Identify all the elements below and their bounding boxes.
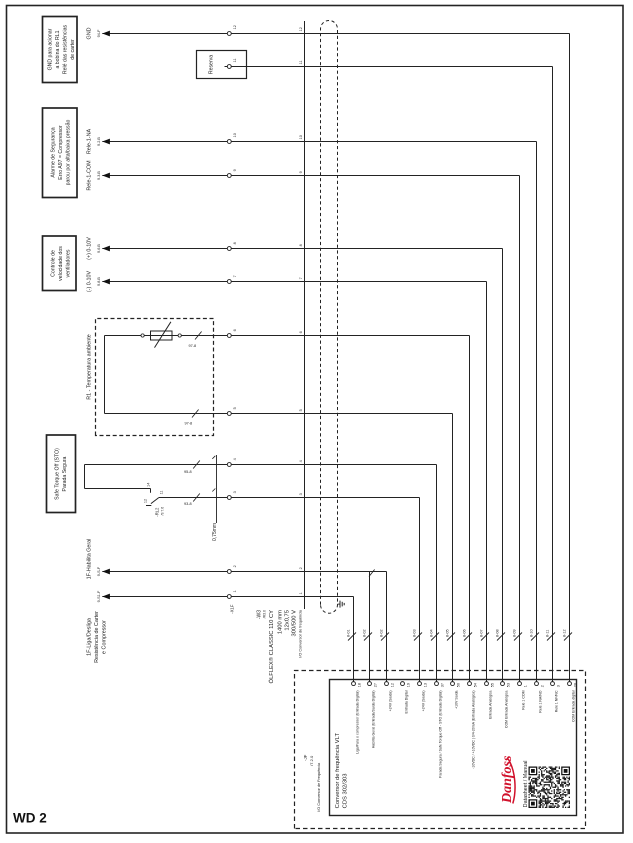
svg-text:Erro A97 = Compressor: Erro A97 = Compressor [58, 125, 64, 180]
svg-text:2: 2 [299, 567, 303, 569]
svg-text:R1 - Temperatura ambiente: R1 - Temperatura ambiente [87, 334, 93, 400]
wire row to pin 50 [452, 414, 454, 682]
wire w9 riser [102, 175, 519, 177]
wire w5 riser [105, 413, 453, 415]
converter pin 37 circle [435, 682, 439, 686]
wire w8 riser [102, 248, 502, 250]
svg-text:9.6.B: 9.6.B [97, 244, 101, 253]
svg-text:12: 12 [299, 27, 303, 31]
svg-text:53: 53 [506, 683, 510, 687]
arrow head w7 [102, 279, 110, 285]
terminal X1F:6 [227, 334, 231, 338]
svg-text:12: 12 [143, 499, 147, 503]
converter pin 12 circle [385, 682, 389, 686]
terminal X1F:10 [227, 140, 231, 144]
cable marker slash row 50 [447, 633, 455, 641]
svg-text:+10V Saída: +10V Saída [455, 690, 459, 708]
svg-text:5: 5 [233, 407, 237, 409]
svg-text:(-) 0-10V: (-) 0-10V [87, 270, 93, 292]
terminal X1F:1 [227, 595, 231, 599]
svg-text:0,75mm: 0,75mm [212, 523, 218, 541]
svg-text:Alarme de Segurança: Alarme de Segurança [51, 127, 57, 177]
wire w2 riser [102, 571, 386, 573]
svg-text:8-11: 8-11 [545, 630, 549, 637]
svg-text:8-12: 8-12 [562, 629, 566, 637]
svg-text:37: 37 [440, 683, 444, 687]
converter VLT solid box [330, 680, 577, 816]
svg-text:6: 6 [299, 331, 303, 333]
converter pin 55 circle [485, 682, 489, 686]
svg-text:Safe Torque Off (STO): Safe Torque Off (STO) [55, 448, 61, 500]
cable marker slash row 37 [431, 633, 439, 641]
cable marker slash row 2 [531, 633, 539, 641]
conductor size line 0,75mm [216, 455, 218, 523]
svg-text:1F-Habilita Geral: 1F-Habilita Geral [87, 539, 93, 580]
svg-text:Relé 1 COM: Relé 1 COM [522, 690, 526, 709]
svg-text:93-8: 93-8 [184, 502, 192, 506]
converter pin 2 circle [535, 682, 539, 686]
wire STO branch horizontal [84, 465, 86, 489]
cable marker slash row 12 [381, 633, 389, 641]
svg-text:19: 19 [406, 683, 410, 687]
wire row to pin 37 [436, 465, 438, 682]
svg-text:Rele-1-NA: Rele-1-NA [87, 129, 93, 155]
svg-text:ÖLFLEX® CLASSIC 110 CY: ÖLFLEX® CLASSIC 110 CY [268, 610, 275, 684]
wire stub in Reserva box [225, 66, 228, 68]
cable -W3 label block [256, 609, 302, 683]
svg-text:Resistência de Carter: Resistência de Carter [94, 611, 100, 663]
svg-text:GND para acionar: GND para acionar [48, 28, 54, 70]
svg-text:9.3.B: 9.3.B [97, 171, 101, 180]
R1 dashed enclosure [96, 319, 214, 436]
svg-text:54: 54 [473, 683, 477, 687]
cable marker slash row 18 [348, 633, 356, 641]
terminal X1F:11 [227, 65, 231, 69]
svg-text:3: 3 [233, 491, 237, 493]
svg-text:11: 11 [160, 490, 164, 494]
svg-text:9.8.B: 9.8.B [97, 277, 101, 286]
cable marker slash row 53 [497, 633, 505, 641]
svg-text:8-06: 8-06 [462, 629, 466, 637]
svg-text:8-10: 8-10 [529, 629, 533, 637]
svg-text:12: 12 [390, 683, 394, 687]
wire row to pin 1 [519, 176, 521, 682]
wire w12 riser [102, 33, 569, 35]
converter pin 3 circle [551, 682, 555, 686]
device box: Alarme de Seguranca Erro A97 [43, 108, 78, 198]
cable marker slash on w6 [195, 332, 202, 340]
svg-text:4: 4 [299, 460, 303, 462]
svg-text:8-07: 8-07 [479, 629, 483, 637]
converter pin 1 circle [518, 682, 522, 686]
device box: Safe Torque Off (STO) Parada Segura [47, 435, 76, 513]
svg-text:8-08: 8-08 [495, 629, 499, 637]
svg-text:Reserva: Reserva [209, 55, 215, 74]
arrow head w2 [102, 569, 110, 575]
wire row to pin 27 [369, 572, 371, 682]
svg-text:8: 8 [233, 242, 237, 244]
svg-text:8: 8 [299, 244, 303, 246]
svg-text:Habilita Geral (Entrada/Saída: Habilita Geral (Entrada/Saída Digital) [372, 691, 376, 749]
svg-text:9.2.B: 9.2.B [97, 137, 101, 146]
svg-text:Conversor de frequência VLT: Conversor de frequência VLT [335, 733, 341, 809]
converter title [335, 733, 349, 809]
wire row to pin 53 [502, 249, 504, 682]
svg-text:Parada Segura: Parada Segura [62, 456, 68, 491]
cable marker slash row 27 [364, 633, 372, 641]
svg-text:11: 11 [233, 58, 237, 62]
svg-text:COM Entrada digital: COM Entrada digital [572, 690, 576, 722]
svg-text:2: 2 [233, 565, 237, 567]
svg-text:Rele-1-COM: Rele-1-COM [87, 160, 93, 191]
svg-text:1: 1 [523, 685, 527, 687]
svg-text:8-05: 8-05 [445, 629, 449, 637]
cable marker slash row 1 [514, 633, 522, 641]
svg-text:6: 6 [233, 329, 237, 331]
wire row to pin 55 [486, 282, 488, 682]
arrow head w8 [102, 246, 110, 252]
wire row to pin 18 [353, 597, 355, 682]
svg-text:-RL2: -RL2 [155, 507, 160, 517]
terminal X1F:9 [227, 174, 231, 178]
svg-text:8-02: 8-02 [379, 629, 383, 637]
svg-text:1: 1 [299, 592, 303, 594]
svg-text:Controle de: Controle de [51, 250, 57, 277]
wire row to pin 12 [386, 572, 388, 682]
Danfoss logo [500, 755, 515, 804]
svg-text:9: 9 [233, 169, 237, 171]
svg-text:12: 12 [233, 25, 237, 29]
ground symbol [340, 601, 344, 608]
wire STO branch vertical to contact 14 [85, 488, 151, 490]
wire w6 riser [105, 335, 470, 337]
thermistor R1 body [141, 322, 181, 348]
svg-text:9-S1-F: 9-S1-F [97, 590, 101, 602]
relay contact RL2 blade [151, 498, 159, 504]
cable marker slash row 54 [464, 633, 472, 641]
svg-text:11: 11 [299, 60, 303, 64]
svg-text:8-01: 8-01 [346, 629, 350, 637]
svg-text:/R3.0: /R3.0 [263, 610, 267, 618]
contact terminal 12 stub [146, 505, 151, 507]
device box: GND para acionar a bobina do RL1 [43, 17, 78, 83]
wire w11 riser [225, 66, 553, 68]
cable marker slash row 13 [414, 633, 422, 641]
arrow head w12 [102, 31, 110, 37]
svg-text:ventiladores: ventiladores [66, 249, 72, 277]
svg-text:de carter: de carter [70, 39, 76, 60]
svg-text:-X1F: -X1F [229, 604, 234, 614]
R1 loop link wire [104, 336, 106, 414]
wire w7 riser [102, 281, 486, 283]
svg-text:a bobina do RL1: a bobina do RL1 [55, 30, 61, 68]
wire row to pin 20 [569, 34, 571, 682]
cable -W3 boundary line [304, 21, 306, 609]
svg-text:GND: GND [87, 27, 93, 39]
svg-text:9-S-F: 9-S-F [97, 566, 101, 576]
shield ground stub [338, 603, 341, 605]
wire row to pin 54 [469, 336, 471, 682]
svg-text:Liga/Para o compressor (Entrad: Liga/Para o compressor (Entrada Digital) [356, 691, 360, 754]
terminal X1F:2 [227, 570, 231, 574]
terminal X1F:12 [227, 32, 231, 36]
svg-text:Entrada Digital: Entrada Digital [405, 690, 409, 713]
svg-text:18: 18 [357, 683, 361, 687]
converter pin 13 circle [418, 682, 422, 686]
cable screen dashed oval [321, 21, 338, 614]
svg-text:-JF: -JF [303, 754, 308, 761]
frequency converter dashed box [295, 671, 586, 829]
svg-text:I/O Conversor de frequência: I/O Conversor de frequência [299, 609, 303, 658]
svg-text:3: 3 [299, 493, 303, 495]
svg-text:Relé 1 NA/NO: Relé 1 NA/NO [539, 690, 543, 712]
arrow head w9 [102, 173, 110, 179]
svg-text:4: 4 [233, 458, 237, 460]
svg-text:8-02: 8-02 [362, 629, 366, 637]
QR code Datasheet/Manual [529, 767, 571, 809]
svg-text:10: 10 [299, 135, 303, 139]
converter pin 18 circle [352, 682, 356, 686]
svg-text:95-8: 95-8 [184, 470, 192, 474]
wire row to pin 13 [419, 498, 421, 682]
svg-text:I/O Conversor de Frequência: I/O Conversor de Frequência [317, 762, 321, 812]
wire row to pin 3 [552, 67, 554, 682]
svg-text:Entrada Analógica: Entrada Analógica [489, 690, 493, 718]
device box: Controle de velocidade dos ventiladores [43, 236, 77, 291]
svg-text:-10VDC / +10VDC | 0/4-20mA (En: -10VDC / +10VDC | 0/4-20mA (Entrada Anal… [472, 691, 476, 769]
svg-text:Datasheet / Manual: Datasheet / Manual [523, 761, 529, 808]
svg-text:9: 9 [299, 171, 303, 173]
converter pin 53 circle [501, 682, 505, 686]
svg-text:8-04: 8-04 [429, 629, 433, 637]
svg-text:10: 10 [233, 133, 237, 137]
wire w10 riser [102, 141, 536, 143]
tick on 0,75mm line at w3 [212, 489, 215, 492]
label 1F-Liga/Desliga Resistencia de Carter e Compressor [87, 611, 108, 663]
svg-text:8-03: 8-03 [412, 629, 416, 637]
cable marker slash row 3 [547, 633, 555, 641]
cable marker slash on w4 [193, 461, 200, 469]
cable marker slash on w5 [192, 410, 199, 418]
svg-text:(+) 0-10V: (+) 0-10V [87, 237, 93, 260]
wire w1 riser [102, 596, 353, 598]
cable marker slash row 55 [481, 633, 489, 641]
svg-text:Relé das resistências: Relé das resistências [63, 24, 69, 74]
svg-text:velocidade dos: velocidade dos [58, 246, 64, 281]
svg-text:Danfoss: Danfoss [500, 755, 515, 804]
converter pin 54 circle [468, 682, 472, 686]
svg-text:CDS 302/303: CDS 302/303 [342, 773, 348, 808]
converter pin 20 circle [568, 682, 572, 686]
wire w4 riser [85, 464, 437, 466]
svg-text:parou por alta/baixa pressão: parou por alta/baixa pressão [66, 120, 72, 186]
terminal X1F:3 [227, 496, 231, 500]
svg-text:5: 5 [299, 409, 303, 411]
converter designator -JF [303, 754, 321, 811]
svg-text:13: 13 [423, 683, 427, 687]
svg-text:+24V (Saída): +24V (Saída) [422, 691, 426, 712]
svg-text:12x0,75: 12x0,75 [284, 610, 290, 631]
junction slash on w2 branch [369, 570, 375, 577]
arrow head w10 [102, 139, 110, 145]
svg-text:97-8: 97-8 [185, 422, 193, 426]
terminal X1F:5 [227, 412, 231, 416]
svg-text:27: 27 [373, 683, 377, 687]
svg-text:1: 1 [233, 590, 237, 592]
svg-text:1F-Liga/Desliga: 1F-Liga/Desliga [87, 618, 93, 656]
wire w3 riser [159, 497, 420, 499]
svg-text:50: 50 [456, 683, 460, 687]
svg-text:Relé 1 NF/NC: Relé 1 NF/NC [555, 690, 559, 712]
converter pin 27 circle [368, 682, 372, 686]
svg-text:55: 55 [490, 683, 494, 687]
svg-text:8-09: 8-09 [512, 629, 516, 637]
svg-text:300/500 V: 300/500 V [291, 610, 297, 637]
svg-text:7: 7 [233, 275, 237, 277]
wire row to pin 2 [536, 142, 538, 682]
svg-text:7: 7 [299, 277, 303, 279]
converter pin 50 circle [451, 682, 455, 686]
svg-text:/9.7.6: /9.7.6 [161, 507, 165, 516]
cable marker slash on w3 [193, 494, 200, 502]
tick on 0,75mm line at w4 [212, 456, 215, 459]
terminal X1F:8 [227, 247, 231, 251]
converter pin 19 circle [401, 682, 405, 686]
svg-text:/7.2.0: /7.2.0 [309, 755, 314, 766]
svg-text:+24V (Saída): +24V (Saída) [389, 691, 393, 712]
svg-text:2: 2 [540, 685, 544, 687]
svg-text:Parada Segura / Safe Torque Of: Parada Segura / Safe Torque Off - STO (E… [439, 691, 443, 778]
svg-text:e Compressor: e Compressor [102, 620, 108, 654]
device box: Reserva [197, 51, 247, 79]
svg-text:WD 2: WD 2 [13, 811, 47, 826]
terminal X1F:4 [227, 463, 231, 467]
svg-text:1400 mm: 1400 mm [277, 610, 283, 634]
svg-text:14: 14 [147, 483, 151, 487]
svg-text:3: 3 [556, 685, 560, 687]
svg-text:COM Entrada Analógica: COM Entrada Analógica [505, 690, 509, 728]
terminal X1F:7 [227, 280, 231, 284]
svg-text:97-8: 97-8 [189, 344, 197, 348]
svg-text:-W3: -W3 [256, 610, 262, 619]
svg-text:94-F: 94-F [97, 29, 101, 37]
contact terminal 14 stub [150, 489, 152, 493]
cable marker slash row 20 [564, 633, 572, 641]
arrow head w1 [102, 594, 110, 600]
